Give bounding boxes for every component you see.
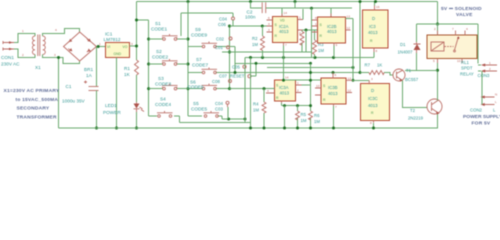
wire column v235 [234,47,236,73]
switch S7 [188,57,360,74]
flip-flop IC3B [315,73,352,110]
junction top bus A [187,0,190,3]
junction v311 row7 [309,71,312,74]
svg-text:1000u 35V: 1000u 35V [62,99,86,104]
svg-text:S9: S9 [195,27,201,32]
svg-text:S7: S7 [196,57,202,62]
svg-text:VI: VI [107,45,110,49]
wire CON1 bottom to transformer primary bottom [14,49,35,58]
svg-text:POWER SUPPLY: POWER SUPPLY [463,114,500,120]
resistor R7 top [292,30,304,52]
flip-flop IC3C [361,77,390,125]
svg-text:R6: R6 [314,113,320,118]
svg-text:1M: 1M [314,119,320,124]
junction v284 gnd [283,127,286,130]
wire LED1 to ground bus [136,112,138,128]
svg-text:4: 4 [466,27,468,31]
regulator IC1 LM7812 [99,32,133,58]
svg-text:VO: VO [123,45,128,49]
svg-text:CON2: CON2 [470,108,483,113]
junction top bus B [249,0,252,3]
flip-flop IC3A [266,76,302,104]
wire node to T1 collector [405,69,438,71]
capacitor C2 [245,2,266,19]
svg-text:X1: X1 [35,65,41,70]
junction rail S2 [147,63,150,66]
junction v360 bus [359,0,362,3]
transformer X1 [32,35,45,71]
svg-text:to 15VAC_500MA: to 15VAC_500MA [16,97,59,103]
wire supply branch v360 [359,2,361,73]
junction v229 bottom [228,87,231,90]
switch S1 [149,21,188,40]
junction rail feed [135,19,138,22]
wire column v229 [229,26,231,89]
svg-text:R5: R5 [301,112,307,117]
svg-text:L: L [495,100,497,104]
svg-text:3: 3 [268,28,270,32]
svg-text:12: 12 [347,26,351,30]
switch rail left [148,20,150,116]
junction v229 top [228,25,231,28]
wire VDD drop mid [311,8,313,57]
junction bridge output [97,45,100,48]
wire rail feed link [137,19,149,21]
svg-text:1M: 1M [252,42,258,47]
flag C05 [232,65,246,70]
bridge rectifier BR1 [64,32,97,78]
flag C04 [218,13,235,27]
wire mid horizontal h52 [222,51,312,53]
resistor R7 base [360,63,393,76]
wire +12V vertical rail left [136,2,138,61]
svg-text:1N4007: 1N4007 [398,50,414,55]
wire IC1 ground pin down to bus [116,58,118,129]
wire IC2A pin1 up [302,9,304,20]
wire v306 [305,30,307,52]
junction link v245 [244,118,247,121]
svg-text:IC3C: IC3C [368,96,378,101]
junction rail2 S3 [187,87,190,90]
junction IC3A bottom b [296,104,299,107]
resistor R6 [309,106,321,128]
svg-text:R4: R4 [253,102,259,107]
svg-text:SECONDARY: SECONDARY [17,106,50,112]
svg-text:IC3B: IC3B [328,85,338,90]
LED LED1 [103,102,144,115]
wire transformer secondary bottom to bridge [43,54,80,63]
svg-text:C07: C07 [219,74,227,79]
svg-text:R2: R2 [252,36,258,41]
ground bus [59,114,438,129]
svg-text:8: 8 [376,49,378,53]
junction h57 e [282,56,285,59]
wire IC3 top to bus [374,2,376,6]
wire relay coil bottom node [437,63,439,99]
svg-text:4: 4 [55,28,57,32]
svg-text:7: 7 [285,43,287,47]
wire h67 [267,67,353,69]
svg-text:1K: 1K [377,63,382,68]
junction h80 a [282,79,285,82]
svg-text:C04: C04 [215,101,223,106]
switch S6 [188,80,229,90]
svg-text:C04: C04 [219,17,227,22]
svg-text:14: 14 [285,76,289,80]
junction h57 b [261,56,264,59]
wire IC3B bottom to bus [333,106,335,128]
svg-text:4013: 4013 [368,30,378,35]
svg-text:RELAY: RELAY [460,71,474,76]
svg-text:S2: S2 [156,49,162,54]
wire bus link v284 [284,106,286,128]
wire relay NO to CON3 [478,65,482,97]
svg-text:2N2219: 2N2219 [408,116,424,121]
connector CON3 [478,61,498,78]
svg-text:11: 11 [315,22,318,26]
svg-text:2: 2 [22,53,24,57]
junction row7 end [359,71,362,74]
junction rail S3 [147,87,150,90]
svg-text:2: 2 [299,31,301,35]
wire mid horizontal h26 [230,25,273,27]
wire IC3A top pin up [283,58,285,81]
wire CON1 top to transformer primary top [14,34,35,43]
wire IC3A bottom [282,103,311,106]
svg-text:C1: C1 [66,84,72,89]
flag C03 [215,101,229,119]
wire S4 row drop [179,116,181,123]
flag C08 [212,79,232,84]
junction IC3A bottom a [283,104,286,107]
wire transformer secondary top to bridge [43,29,80,36]
svg-text:14: 14 [284,11,288,15]
wire C1 bottom to ground bus [96,91,98,129]
diode D1 [398,42,421,55]
junction IC3C gnd [372,127,375,130]
counter IC3 [363,5,389,53]
junction h57 c [314,56,317,59]
junction relay top [436,23,439,26]
wire S3 row to IC3A [229,88,275,90]
svg-text:4013: 4013 [280,91,290,96]
svg-text:POWER: POWER [103,110,121,115]
junction v229 mid [228,51,231,54]
wire v311 mid [310,63,312,105]
junction top bus C [294,0,297,3]
wire CON2 link [481,97,483,105]
flag C02 [216,37,232,42]
resistor R3 [313,30,325,58]
resistor R1 [124,60,139,77]
svg-text:8: 8 [370,121,372,125]
svg-text:2: 2 [489,67,491,71]
svg-text:RL1: RL1 [461,60,469,65]
junction R6 gnd [309,127,312,130]
svg-text:CODE3: CODE3 [155,82,172,87]
junction IC1 out node [135,45,138,48]
switch S3 [149,76,188,90]
junction R4 gnd [263,127,266,130]
svg-text:CODE1: CODE1 [151,27,168,32]
svg-text:LM7812: LM7812 [104,37,121,42]
svg-text:4013: 4013 [279,29,289,34]
wire bridge output down to C1 [96,47,98,87]
wire IC2B bottom to h57 [333,46,335,58]
junction h63 a [255,62,258,65]
wire relay top T [417,24,479,64]
svg-text:BR1: BR1 [84,67,94,72]
svg-text:1: 1 [99,42,101,46]
wire IC3A pin1 link [302,80,311,85]
svg-text:13: 13 [347,15,351,19]
wire T2 collector [437,99,439,101]
svg-text:12: 12 [348,89,352,93]
svg-text:1K: 1K [124,72,131,77]
svg-text:FOR 5V: FOR 5V [472,120,491,126]
svg-text:VD: VD [280,19,285,23]
wire D1 bottom to node [416,53,418,70]
svg-text:C06: C06 [218,22,226,27]
svg-text:4: 4 [268,22,270,26]
svg-text:IC3: IC3 [369,24,376,29]
svg-text:SPDT: SPDT [461,66,473,71]
svg-text:3: 3 [54,53,56,57]
svg-text:S1: S1 [155,21,161,26]
transistor T2 [408,99,442,121]
svg-text:R7: R7 [365,63,371,68]
svg-text:CODE6: CODE6 [188,85,205,90]
wire IC3 bottom to h57 [373,52,375,58]
wire lower link row [180,122,251,124]
svg-text:7: 7 [335,105,337,109]
svg-text:BC557: BC557 [405,77,419,82]
svg-text:S5: S5 [193,101,199,106]
junction h63 b [309,62,312,65]
svg-text:C05: C05 [232,65,240,70]
junction h30 [305,29,308,32]
svg-text:CODE2: CODE2 [152,54,169,59]
wire h63 [235,62,312,64]
wire IC2A bottom down to IC3A [283,46,285,83]
svg-text:6: 6 [335,73,337,77]
svg-text:D: D [371,88,374,93]
junction row7 v235 [234,71,237,74]
svg-text:3: 3 [371,77,373,81]
svg-text:S3: S3 [158,76,164,81]
svg-text:2: 2 [434,27,436,31]
junction rail2 S1 [187,38,190,41]
junction IC3B gnd [332,127,335,130]
junction flag row [227,118,230,121]
svg-text:CON1: CON1 [1,55,14,60]
wire S5 row drop [222,116,245,119]
top supply bus [137,1,438,3]
svg-text:C03: C03 [215,107,223,112]
wire R1 to LED1 [136,75,138,102]
svg-text:GND: GND [114,52,122,56]
wire v245 [244,58,246,123]
wire drop to C2 [251,2,262,9]
svg-text:8: 8 [315,16,317,20]
wire h80 link [284,79,322,81]
svg-text:CON3: CON3 [478,73,491,78]
svg-text:T1: T1 [406,68,412,73]
wire pin2 line h30 [301,29,318,31]
junction rail2 S2 [187,63,190,66]
junction v250 gnd [249,127,252,130]
svg-text:C01: C01 [215,45,223,50]
junction rail S1 [147,38,150,41]
svg-text:LED1: LED1 [105,103,117,108]
svg-text:IC1: IC1 [105,32,113,37]
wire ground drop left [58,58,60,129]
svg-text:TRANSFORMER: TRANSFORMER [17,114,58,120]
svg-text:5V ⎓ SOLENOID: 5V ⎓ SOLENOID [441,6,482,12]
switch S4 [149,97,180,118]
junction h26 R2 [261,25,264,28]
svg-text:R1: R1 [124,66,130,71]
junction IC1 gnd [115,127,118,130]
svg-text:4: 4 [267,89,269,93]
flag C07 RESET [219,63,256,78]
wire h12 link [181,13,233,36]
resistor R2 [252,26,265,58]
junction row7 ic3b [332,71,335,74]
svg-text:D: D [372,16,375,21]
junction S3 row b [263,87,266,90]
svg-text:4013: 4013 [368,103,378,108]
junction h57 d [332,56,335,59]
wire v250 [250,58,252,129]
svg-text:1: 1 [22,29,24,33]
switch rail mid [187,2,189,117]
svg-text:4013: 4013 [328,91,338,96]
svg-text:9: 9 [336,43,338,47]
svg-text:IC3A: IC3A [279,85,289,90]
svg-text:1: 1 [299,16,301,20]
svg-text:7: 7 [452,27,454,31]
wire IC1 output [130,45,137,47]
junction ground drop [57,56,60,59]
junction h80 b [309,79,312,82]
junction h57 a [249,56,252,59]
junction R5 gnd [296,127,299,130]
switch S9 [188,27,235,48]
svg-text:2: 2 [297,89,299,93]
wire bridge output to IC1 [96,46,105,48]
svg-text:CODE9: CODE9 [191,33,208,38]
svg-text:1M: 1M [301,118,307,123]
svg-text:CODE7: CODE7 [192,62,209,67]
svg-text:10: 10 [316,84,320,88]
capacitor C1 [62,81,99,104]
svg-text:230V AC: 230V AC [1,62,20,67]
junction h67 end [352,66,355,69]
svg-text:S4: S4 [160,97,166,102]
svg-text:4013: 4013 [327,29,337,34]
switch S5 [188,101,222,117]
svg-text:1: 1 [297,81,299,85]
wire top bus right corner down [437,2,439,25]
svg-text:1: 1 [489,61,491,65]
transistor T1 [393,68,419,82]
junction VDD feed [310,7,313,10]
flip-flop IC2B [312,14,351,48]
junction LED gnd [135,127,138,130]
flip-flop IC2A [267,11,304,47]
svg-text:13: 13 [348,77,352,81]
svg-text:1M: 1M [253,108,259,113]
connector CON1 [1,41,20,67]
junction IC3 bus [374,0,377,3]
svg-text:6: 6 [268,16,270,20]
svg-text:1A: 1A [86,73,93,78]
junction v311 bottom [309,104,312,107]
svg-text:T2: T2 [410,108,416,113]
svg-text:100n: 100n [245,14,256,19]
junction C1 ground [95,127,98,130]
wire IC3C bottom to bus [373,123,375,128]
wire IC3B pin13 to IC3C pin3 [352,79,369,81]
switch S2 [149,49,188,65]
svg-text:16: 16 [376,5,380,9]
relay RL1 [427,27,477,76]
svg-text:CODE5: CODE5 [191,106,208,111]
svg-text:N: N [495,93,497,97]
flag C01 [215,45,230,50]
svg-text:RESET: RESET [230,74,245,79]
junction branch IC3C [352,79,355,82]
svg-text:1M: 1M [318,48,324,53]
svg-text:CODE4: CODE4 [155,102,172,107]
junction coil bottom [436,69,439,72]
wire IC2B pin13 branch [346,19,354,81]
resistor R4 [253,89,266,128]
wire mid horizontal h57 [245,57,374,59]
wire T1 emitter to T2 base [403,81,428,108]
svg-text:VALVE: VALVE [456,12,473,18]
svg-text:X1=230V AC PRIMARY: X1=230V AC PRIMARY [4,88,60,94]
connector CON2 [470,93,497,113]
svg-text:3: 3 [131,42,133,46]
resistor R5 [296,106,307,128]
svg-text:D1: D1 [400,42,406,47]
wire VDD feed line [266,2,352,17]
svg-text:C02: C02 [216,37,224,42]
svg-text:5: 5 [433,59,435,63]
svg-text:C08: C08 [212,79,220,84]
